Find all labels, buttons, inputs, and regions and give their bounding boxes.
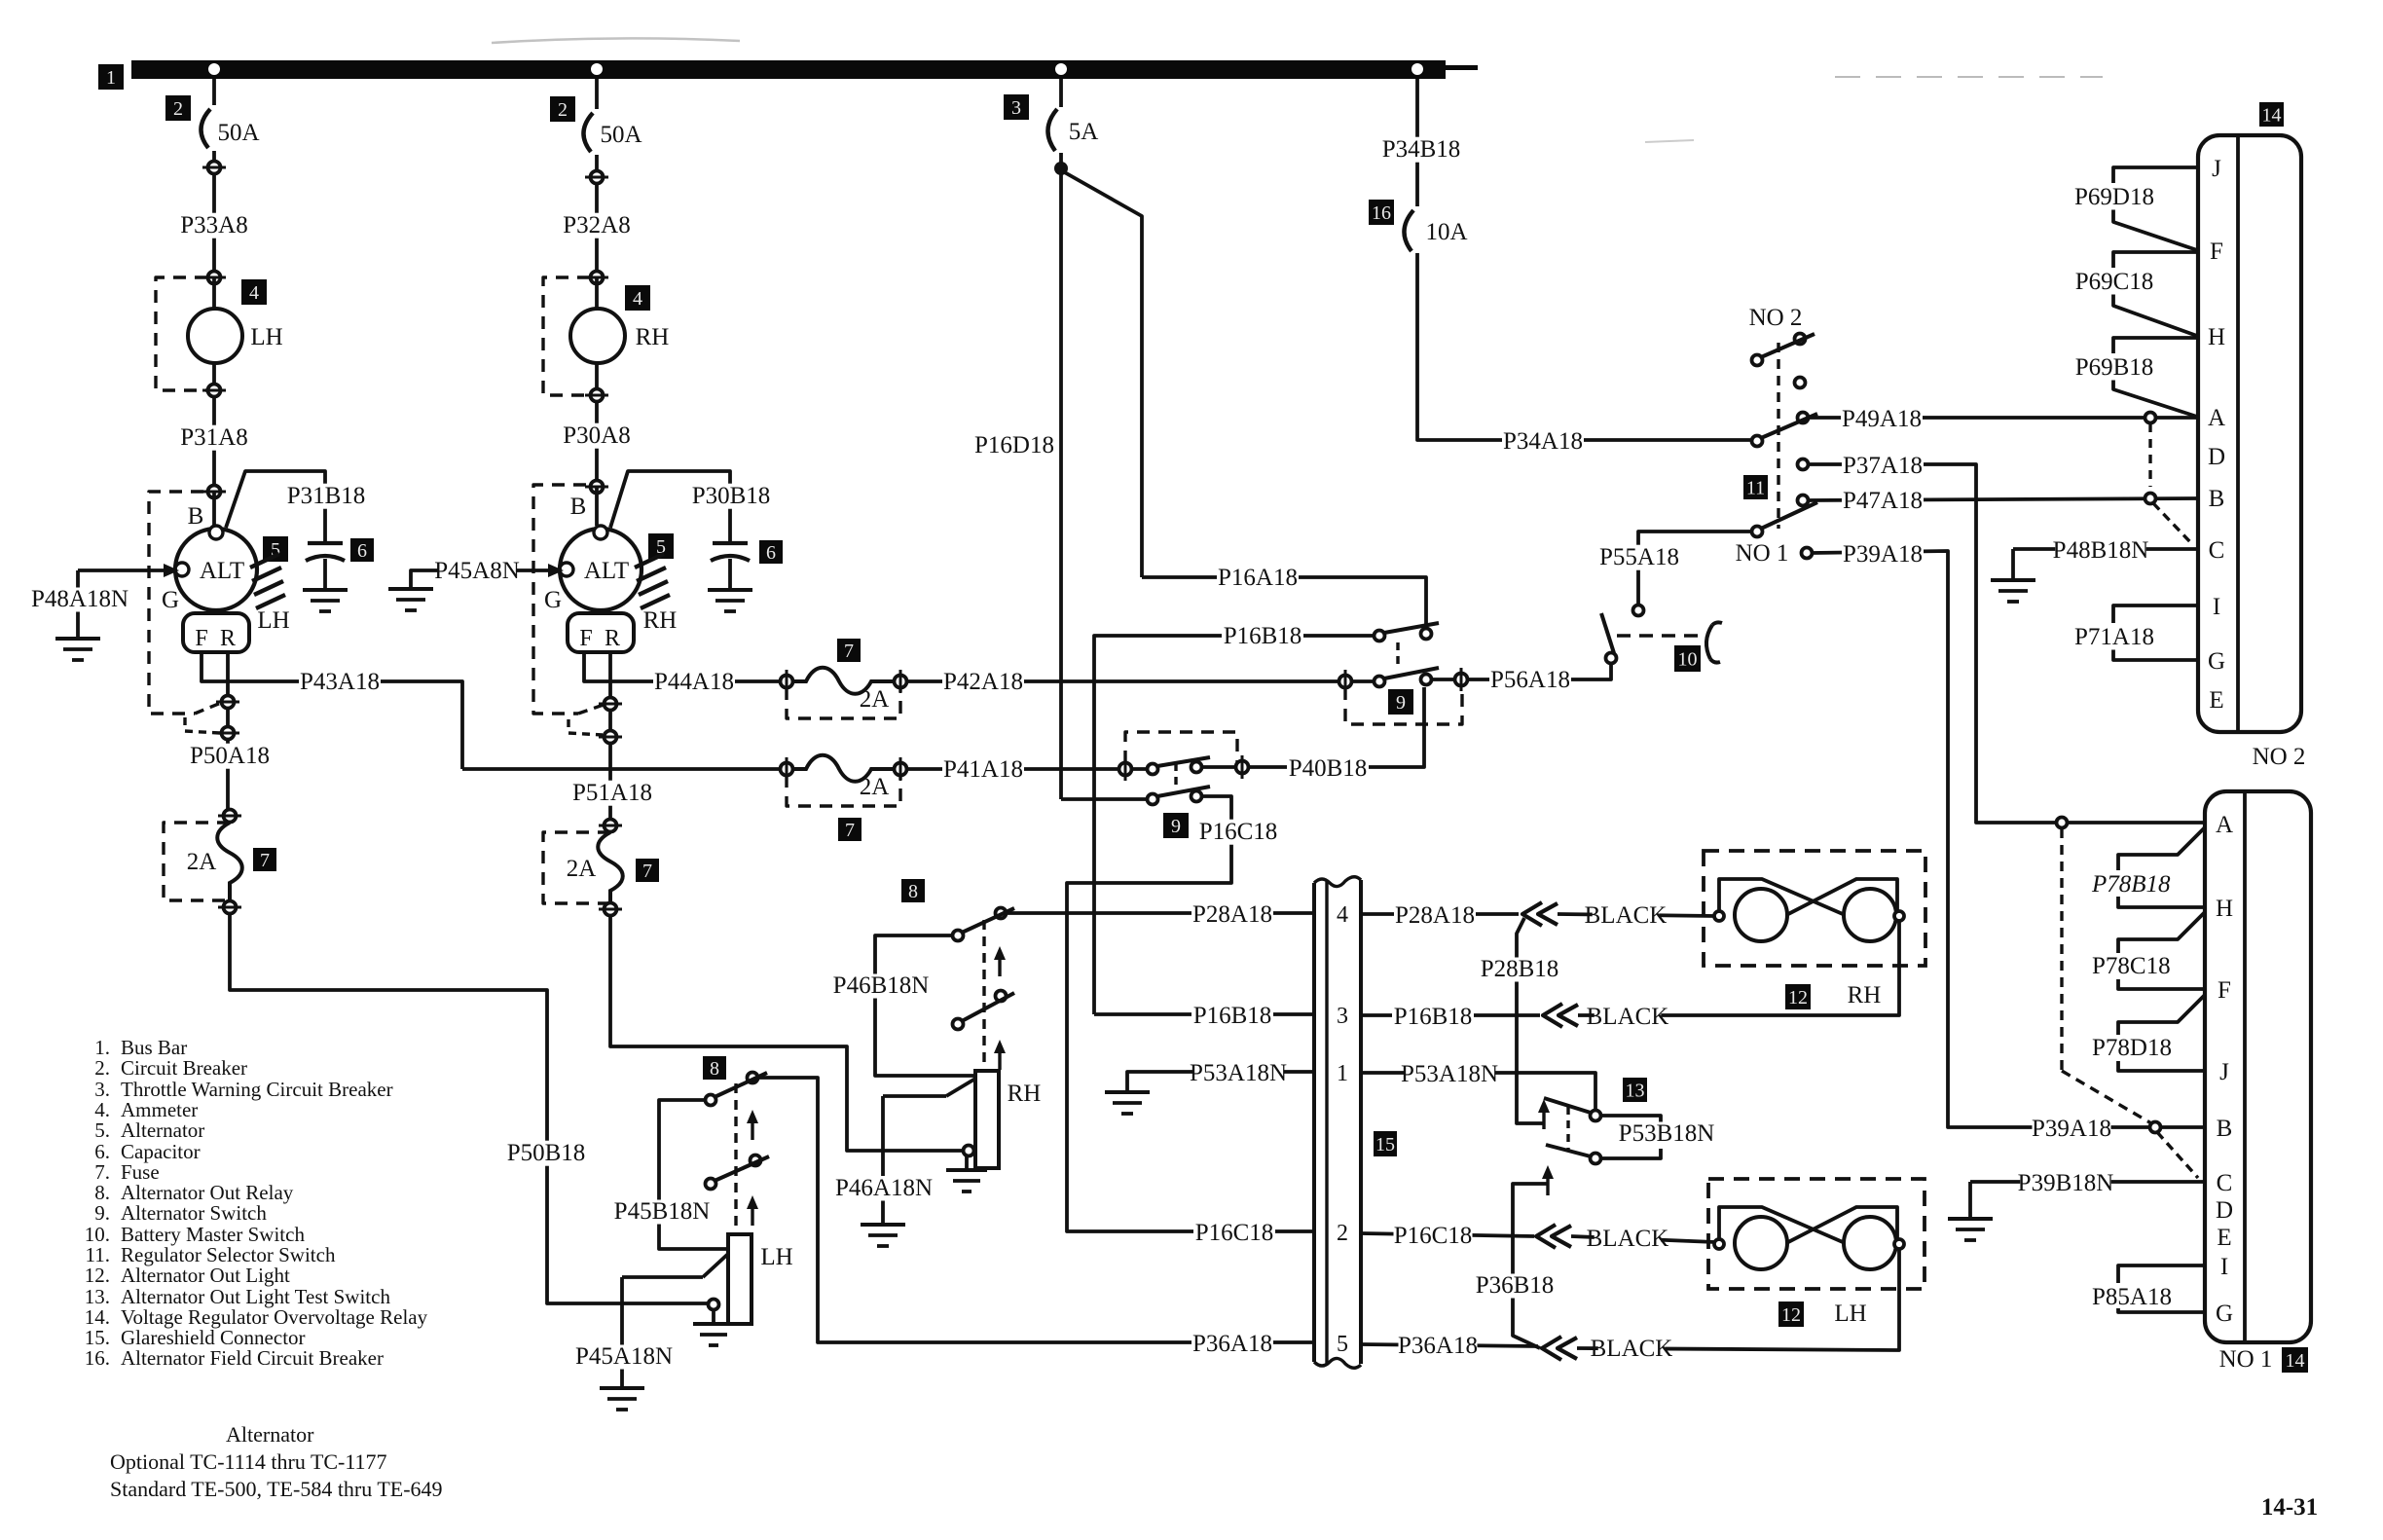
label NO 2 <box>1749 305 1803 331</box>
pin (fuse top) <box>218 810 241 823</box>
wire label P37A18 <box>1842 453 1924 479</box>
svg-text:P78C18: P78C18 <box>2092 953 2171 979</box>
wire label P36A18 (left) <box>1191 1331 1273 1357</box>
svg-text:BLACK: BLACK <box>1591 1336 1673 1362</box>
ground symbol <box>1991 580 2035 602</box>
relay coil RH <box>975 1071 999 1168</box>
wire label P53A18N (right) <box>1401 1061 1498 1087</box>
pin number 1 <box>1337 1061 1348 1086</box>
regulator selector switch (item 11) <box>1752 334 1818 559</box>
wire P28B18 (splice down to test switch) <box>1517 918 1544 1123</box>
svg-text:RH: RH <box>1848 982 1882 1008</box>
wire to P16A18 (diagonal + vertical) <box>1061 170 1142 577</box>
capacitor C2 (item 6, RH) <box>711 543 750 561</box>
alternator out light (item 12, LH) dashed case <box>1708 1179 1925 1289</box>
wire label P50B18 <box>505 1140 587 1166</box>
label square 7 (Fuse RH field) <box>636 859 659 882</box>
svg-text:Alternator Switch: Alternator Switch <box>121 1201 267 1225</box>
svg-text:LH: LH <box>760 1244 792 1270</box>
coil terminal contact <box>709 1300 719 1310</box>
svg-text:12.: 12. <box>85 1264 110 1287</box>
svg-text:R: R <box>605 626 620 651</box>
wire P42A18 <box>906 679 1345 683</box>
page number 14-31 <box>2261 1494 2318 1521</box>
svg-text:H: H <box>2208 324 2225 350</box>
wire label P49A18 <box>1841 406 1923 432</box>
svg-text:BLACK: BLACK <box>1587 1226 1669 1252</box>
wire label P28B18 <box>1481 956 1559 982</box>
fuse F2 2A (item 7, RH field) <box>543 832 623 903</box>
svg-text:Alternator: Alternator <box>226 1422 314 1447</box>
svg-text:P28A18: P28A18 <box>1192 901 1272 928</box>
label square 12 (Alternator Out Light RH) <box>1785 984 1811 1009</box>
relay coil LH <box>728 1234 752 1324</box>
wire P41A18 (from P43A18 jog) <box>462 767 787 771</box>
jumper wire P85A18 (I to G) <box>2118 1265 2205 1312</box>
relay NO1 pin E <box>2217 1225 2231 1251</box>
wire P33A8 (vertical) <box>212 161 216 277</box>
label square 14 (NO 1 relay) <box>2282 1347 2308 1373</box>
wire P39A18 (NO1 contact down to NO1 connector B) <box>1813 551 2013 1127</box>
svg-text:NO 1: NO 1 <box>2219 1346 2273 1373</box>
pin (connector) <box>585 272 608 284</box>
svg-text:G: G <box>2216 1301 2233 1327</box>
svg-text:P42A18: P42A18 <box>943 669 1023 695</box>
jumper wire P78D18 (F to J) <box>2118 995 2205 1071</box>
svg-text:P39A18: P39A18 <box>2032 1116 2111 1142</box>
alternator label LH <box>257 607 289 634</box>
wire label P44A18 <box>653 669 735 695</box>
text ALT <box>584 558 629 584</box>
pin (connector) <box>585 389 608 402</box>
svg-text:12: 12 <box>1788 987 1808 1008</box>
coil label LH <box>760 1244 792 1270</box>
label square 6 (Capacitor) <box>350 538 374 562</box>
lamp label RH <box>1848 982 1882 1008</box>
terminal label B <box>570 494 587 520</box>
label square 6 (Capacitor RH) <box>759 540 783 564</box>
wire label P45B18N <box>614 1198 711 1225</box>
svg-text:9.: 9. <box>94 1201 110 1225</box>
mechanical link (dashed) <box>1566 1107 1569 1150</box>
terminal label B <box>188 503 204 530</box>
svg-text:RH: RH <box>636 324 670 350</box>
wire P46A18N (ground leg) <box>883 1079 975 1223</box>
svg-text:10: 10 <box>1678 648 1698 670</box>
wire label P34A18 <box>1502 428 1584 455</box>
relay NO2 pin H <box>2208 324 2225 350</box>
ground symbol <box>861 1225 905 1246</box>
svg-text:7: 7 <box>844 641 854 662</box>
junction dot branch 2 <box>591 63 603 75</box>
wire P45B18N (arm1 left contact to coil top) <box>659 1100 728 1249</box>
relay NO2 pin J <box>2212 156 2221 182</box>
ground symbol <box>708 590 752 611</box>
circuit breaker CB 50A (item 2, LH) <box>201 79 214 161</box>
relay NO1 pin H <box>2216 896 2233 922</box>
ground symbol below coil terminal <box>946 1156 987 1192</box>
wire label P78D18 <box>2092 1035 2172 1061</box>
svg-text:15: 15 <box>1375 1134 1395 1155</box>
svg-text:2: 2 <box>1337 1221 1348 1246</box>
value label 10A <box>1425 219 1467 245</box>
ground wire P45A8N at RH alternator G <box>411 564 564 587</box>
wire label P56A18 <box>1489 667 1571 693</box>
svg-text:P16C18: P16C18 <box>1394 1223 1473 1249</box>
label square 2 (Circuit Breaker) <box>165 95 191 121</box>
wire label P16A18 <box>1217 565 1299 591</box>
pin number 5 <box>1337 1332 1348 1357</box>
alternator switch (item 9, LH) section B <box>1061 787 1210 805</box>
value label 50A <box>217 120 259 146</box>
label square 5 (Alternator RH) <box>648 533 674 559</box>
svg-text:2A: 2A <box>860 686 890 713</box>
wire label P48A18N <box>31 586 128 612</box>
capacitor C1 (item 6, LH) <box>306 543 345 561</box>
wire P46B18N (arm1 to coil top) <box>875 935 974 1076</box>
coil terminal contact <box>964 1146 974 1156</box>
wire P34A18 (down then right to selector switch) <box>1417 253 1752 440</box>
junction dot branch 1 <box>208 63 220 75</box>
pin (connector) <box>585 171 608 184</box>
pin (connector) <box>202 162 226 174</box>
svg-text:P16B18: P16B18 <box>1193 1003 1272 1029</box>
junction hook on P47A18 <box>2145 494 2194 546</box>
wire label P48B18N <box>2053 537 2149 564</box>
svg-text:7: 7 <box>845 820 855 841</box>
wire label P69D18 <box>2074 184 2154 210</box>
wire to NO1 pin A <box>2062 821 2205 825</box>
svg-text:8: 8 <box>710 1058 719 1080</box>
throttle warning circuit breaker 5A (item 3) <box>1047 79 1061 164</box>
alternator out light test switch (item 13) section A <box>1544 1098 1601 1121</box>
wire P47A18 (selector to relay B) <box>1809 498 2199 500</box>
wire P16B18 (corner to connector pin 3) <box>1094 1012 1314 1016</box>
svg-text:C: C <box>2217 1170 2233 1196</box>
pin number 2 <box>1337 1221 1348 1246</box>
pin (fuse bottom) <box>218 901 241 914</box>
terminal label F <box>579 626 592 651</box>
wire label P16B18 (right) <box>1392 1004 1474 1030</box>
svg-text:Alternator: Alternator <box>121 1118 204 1142</box>
wire F output to P43A18 <box>202 652 462 769</box>
ammeter LH circle <box>188 277 242 492</box>
quick-disconnect splice <box>1543 1004 1578 1027</box>
junction hook on B wire <box>2150 1122 2199 1179</box>
wire label P45A8N <box>434 558 520 584</box>
pin number 3 <box>1337 1004 1348 1029</box>
pin (connector) <box>585 481 608 494</box>
jumper wire P71A18 (I to G) <box>2113 605 2198 660</box>
label square 8 (Alternator Out Relay LH) <box>703 1056 726 1080</box>
svg-text:ALT: ALT <box>584 558 629 584</box>
relay NO1 pin G <box>2216 1301 2233 1327</box>
svg-text:P50A18: P50A18 <box>190 743 270 769</box>
jumper wire P69C18 (F to H) <box>2113 252 2198 336</box>
svg-text:P40B18: P40B18 <box>1289 755 1368 782</box>
svg-text:50A: 50A <box>600 122 642 148</box>
svg-text:P85A18: P85A18 <box>2092 1284 2172 1310</box>
alternator LH body <box>175 492 257 610</box>
actuation arrow <box>1538 1099 1550 1129</box>
label square 9 (Alternator Switch RH) <box>1388 689 1413 715</box>
label NO 1 <box>1736 540 1789 567</box>
svg-text:B: B <box>570 494 587 520</box>
relay NO2 pin E <box>2209 687 2223 714</box>
pin (fuse top) <box>599 820 622 832</box>
relay NO1 pin I <box>2220 1254 2228 1280</box>
ammeter label RH <box>636 324 670 350</box>
svg-text:P53A18N: P53A18N <box>1190 1060 1287 1086</box>
svg-text:P28A18: P28A18 <box>1395 902 1475 929</box>
ground symbol <box>600 1388 644 1410</box>
svg-text:B: B <box>188 503 204 530</box>
svg-text:P69C18: P69C18 <box>2075 269 2154 295</box>
svg-text:P34A18: P34A18 <box>1503 428 1583 455</box>
svg-text:P16B18: P16B18 <box>1224 623 1302 649</box>
svg-text:LH: LH <box>257 607 289 634</box>
wire label P39A18 (at NO1) <box>2032 1116 2111 1142</box>
svg-text:P49A18: P49A18 <box>1842 406 1922 432</box>
svg-text:E: E <box>2217 1225 2231 1251</box>
svg-text:P46B18N: P46B18N <box>833 972 930 999</box>
terminal label F <box>195 626 207 651</box>
svg-text:13: 13 <box>1626 1080 1645 1101</box>
svg-text:P51A18: P51A18 <box>572 780 652 806</box>
svg-text:P44A18: P44A18 <box>654 669 734 695</box>
value label 2A <box>860 774 890 800</box>
wire label P51A18 <box>571 780 653 806</box>
svg-text:A: A <box>2216 812 2233 838</box>
svg-text:P32A8: P32A8 <box>563 212 630 238</box>
wire P16D18 (long vertical) <box>1059 168 1063 799</box>
junction hook on P49A18 <box>2145 413 2156 488</box>
svg-text:P41A18: P41A18 <box>943 756 1023 783</box>
actuation arrow <box>747 1110 758 1140</box>
relay NO2 pin G <box>2208 648 2225 675</box>
svg-text:B: B <box>2209 486 2225 512</box>
label square 8 (Alternator Out Relay RH) <box>901 879 925 902</box>
svg-text:4: 4 <box>1337 902 1348 928</box>
mechanical link (dashed) <box>982 920 985 1071</box>
svg-text:I: I <box>2220 1254 2228 1280</box>
wire label P69C18 <box>2075 269 2154 295</box>
wire P45A18N (ground leg) <box>622 1254 728 1386</box>
svg-text:P28B18: P28B18 <box>1481 956 1559 982</box>
svg-text:J: J <box>2212 156 2221 182</box>
actuation arrow <box>1542 1165 1554 1195</box>
svg-text:6: 6 <box>766 542 776 564</box>
wire label P16C18 <box>1197 819 1279 845</box>
svg-text:I: I <box>2213 594 2220 620</box>
svg-text:F: F <box>579 626 592 651</box>
wire label P78C18 <box>2092 953 2171 979</box>
wire label BLACK <box>1587 1004 1669 1030</box>
svg-text:B: B <box>2217 1116 2233 1142</box>
lamp label LH <box>1834 1301 1866 1327</box>
label square 4 (Ammeter) <box>241 279 267 305</box>
svg-text:P71A18: P71A18 <box>2074 624 2154 650</box>
alternator switch (item 9, RH) section B on P42A18 row <box>1339 668 1468 724</box>
wire label P45A18N <box>575 1343 673 1370</box>
wire R output P50A18 <box>226 652 230 816</box>
actuation arrow <box>994 946 1006 976</box>
svg-text:P45B18N: P45B18N <box>614 1198 711 1225</box>
svg-text:Optional TC-1114 thru TC-1177: Optional TC-1114 thru TC-1177 <box>110 1449 387 1474</box>
wire label BLACK <box>1587 1226 1669 1252</box>
label square 9 (Alternator Switch) <box>1163 813 1189 838</box>
svg-text:R: R <box>220 626 236 651</box>
svg-text:P30B18: P30B18 <box>692 483 771 509</box>
svg-text:P53B18N: P53B18N <box>1619 1120 1715 1147</box>
wire label P16B18 (left) <box>1191 1003 1273 1029</box>
wire to RH alternator-out relay coil <box>610 915 963 1151</box>
pin (connector) <box>599 731 622 744</box>
svg-text:P78B18: P78B18 <box>2091 871 2171 898</box>
svg-text:P46A18N: P46A18N <box>835 1175 933 1201</box>
svg-text:P16D18: P16D18 <box>974 432 1054 458</box>
wire label P34B18 <box>1380 136 1462 163</box>
svg-text:11: 11 <box>1746 477 1765 498</box>
ground wire P53A18N (left) <box>1127 1072 1314 1090</box>
wire P16B18 (corner to switch) <box>1094 636 1375 1014</box>
value label 2A <box>567 856 597 882</box>
wire P55A18 (from selector pivot down to switch 10) <box>1638 532 1757 604</box>
wire BLACK to RH lamp <box>1558 914 1715 916</box>
actuation arrow <box>994 1040 1006 1070</box>
ground symbol <box>1105 1092 1150 1114</box>
wire P16B18 (pin 3 to splice) <box>1361 1013 1540 1017</box>
relay NO2 pin D <box>2208 444 2225 470</box>
svg-text:P39B18N: P39B18N <box>2018 1170 2114 1196</box>
svg-text:E: E <box>2209 687 2223 714</box>
wire label P16B18 <box>1222 623 1303 649</box>
wire label P36B18 <box>1476 1272 1555 1299</box>
wire label P30B18 <box>690 483 772 509</box>
value label 2A <box>187 849 217 875</box>
wire P53A18N (pin 1 to test switch) <box>1361 1073 1595 1111</box>
svg-text:10A: 10A <box>1425 219 1467 245</box>
alternator out relay (item 8, LH) arm 1 <box>706 1073 768 1106</box>
voltage regulator overvoltage relay (item 14, NO 2) body <box>2198 135 2301 732</box>
relay NO1 pin F <box>2218 977 2231 1004</box>
svg-text:BLACK: BLACK <box>1587 1004 1669 1030</box>
svg-text:ALT: ALT <box>200 558 244 584</box>
svg-text:2A: 2A <box>187 849 217 875</box>
wire label P78B18 <box>2091 871 2171 898</box>
relay NO2 pin A <box>2208 405 2225 431</box>
ammeter A1 dashed case (item 4, LH) <box>156 277 207 390</box>
relay RH arm 2 <box>953 991 1015 1030</box>
svg-text:H: H <box>2216 896 2233 922</box>
fuse F3 2A (item 7) on P44A18/P42A18 row <box>781 668 907 718</box>
label square 1 (Bus Bar) <box>98 64 124 90</box>
svg-text:12: 12 <box>1781 1304 1801 1326</box>
svg-text:P48B18N: P48B18N <box>2053 537 2149 564</box>
svg-text:Circuit Breaker: Circuit Breaker <box>121 1056 247 1080</box>
ground symbol below coil terminal <box>693 1310 734 1345</box>
svg-text:P78D18: P78D18 <box>2092 1035 2172 1061</box>
svg-text:3: 3 <box>1337 1004 1348 1029</box>
mechanical link (dashed) <box>734 1083 737 1232</box>
label square 5 (Alternator) <box>263 536 288 562</box>
wire P40B18 (switch to up-corner) <box>1248 687 1424 767</box>
jumper wire P78C18 (H to F) <box>2118 912 2205 989</box>
brush hatching <box>250 554 285 608</box>
wire P53B18N (bracket between sections) <box>1601 1116 1661 1158</box>
terminal label R <box>220 626 236 651</box>
label square 12 (Alternator Out Light LH) <box>1778 1302 1804 1327</box>
relay NO1 pin D <box>2216 1197 2233 1224</box>
jumper wire P78B18 (A to H) <box>2118 827 2205 907</box>
label square 14 (Voltage Regulator Overvoltage Relay) <box>2259 102 2284 127</box>
pin (connector) <box>599 698 622 711</box>
svg-text:3: 3 <box>1011 97 1021 119</box>
svg-text:P34B18: P34B18 <box>1382 136 1461 163</box>
pin (connector) <box>202 272 226 284</box>
test switch section B <box>1546 1145 1601 1164</box>
coil label RH <box>1008 1081 1042 1107</box>
svg-text:2A: 2A <box>567 856 597 882</box>
junction dot branch 3 <box>1055 63 1067 75</box>
wire label P40B18 <box>1287 755 1369 782</box>
wire label P16C18 (right) <box>1394 1223 1473 1249</box>
ammeter label LH <box>250 324 282 350</box>
svg-text:P33A8: P33A8 <box>180 212 247 238</box>
alternator ALT (item 5, RH) dashed case <box>533 485 604 735</box>
wire P36B18 (test switch to P36A18 splice) <box>1513 1184 1548 1348</box>
pin (connector) <box>202 385 226 397</box>
alternator out light LH bulbs <box>1714 1207 1904 1269</box>
label square 7 (Fuse) <box>253 848 276 871</box>
svg-text:D: D <box>2208 444 2225 470</box>
svg-text:P48A18N: P48A18N <box>31 586 128 612</box>
svg-text:P47A18: P47A18 <box>1843 488 1923 514</box>
svg-text:2: 2 <box>173 98 183 120</box>
svg-text:6: 6 <box>357 540 367 562</box>
svg-text:P36A18: P36A18 <box>1398 1333 1478 1359</box>
alternator switch (item 9, LH) section A on P41A18 row <box>1119 732 1249 790</box>
circuit breaker CB 50A (item 2, RH) <box>583 79 597 164</box>
wire label P50A18 <box>189 743 271 769</box>
svg-text:RH: RH <box>643 607 678 634</box>
relay LH arm 2 <box>706 1155 770 1190</box>
wire label P28A18 (left) <box>1191 901 1273 928</box>
wire label P16D18 <box>973 432 1055 458</box>
wire P56A18 <box>1467 664 1611 679</box>
alternator out light (item 12, RH) dashed case <box>1704 851 1925 966</box>
relay NO2 pin C <box>2209 537 2225 564</box>
bus bar (item 1) <box>131 60 1478 79</box>
label square 16 (Alternator Field Circuit Breaker) <box>1369 200 1394 225</box>
terminal label G <box>162 587 179 613</box>
wire P39A18 into pin B <box>2013 1125 2205 1129</box>
wire label P30A8 <box>563 422 632 449</box>
quick-disconnect splice <box>1522 902 1558 926</box>
wire label P39B18N <box>2018 1170 2114 1196</box>
quick-disconnect splice <box>1536 1225 1571 1248</box>
svg-text:8: 8 <box>908 881 918 902</box>
capacitor feed wire P30B18 <box>610 471 730 588</box>
wire label P16C18 (row 2 left) <box>1193 1220 1275 1246</box>
wire label P47A18 <box>1842 488 1924 514</box>
svg-text:2.: 2. <box>94 1056 110 1080</box>
svg-text:14: 14 <box>2262 104 2282 126</box>
relay NO2 pin B <box>2209 486 2225 512</box>
svg-text:P31A8: P31A8 <box>180 424 247 451</box>
legend list <box>85 1036 428 1370</box>
terminal label G <box>544 587 562 613</box>
